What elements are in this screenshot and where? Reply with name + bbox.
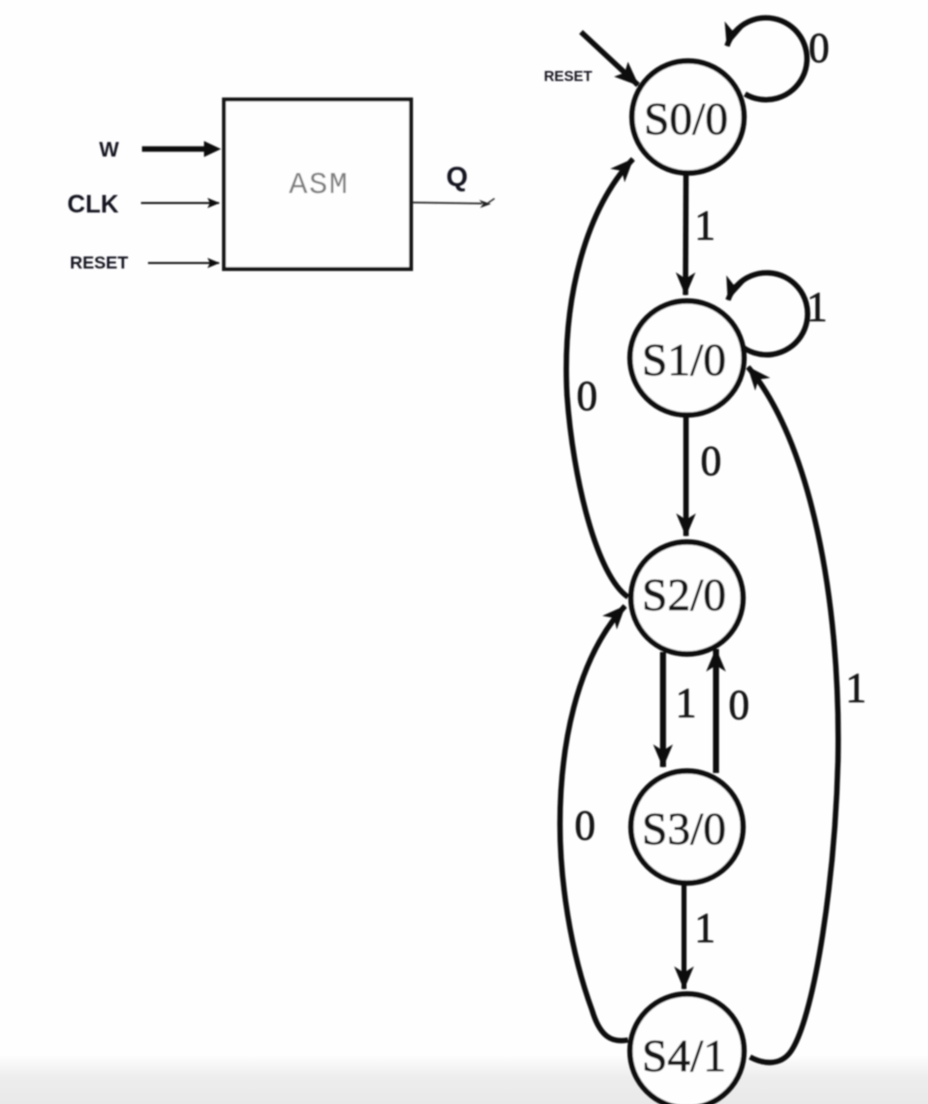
reset arrow into S0 [581,32,638,85]
svg-text:S3/0: S3/0 [642,803,726,854]
svg-text:0: 0 [729,683,750,729]
svg-text:Q: Q [446,161,468,192]
svg-text:W: W [99,139,119,162]
svg-text:0: 0 [575,804,596,850]
svg-text:ASM: ASM [289,168,349,203]
svg-text:1: 1 [695,906,716,952]
svg-text:1: 1 [676,681,697,727]
svg-text:CLK: CLK [67,191,118,219]
svg-text:S1/0: S1/0 [642,334,726,385]
wire CLK [141,202,219,204]
svg-text:1: 1 [846,666,867,712]
wire W [142,146,204,151]
svg-text:S0/0: S0/0 [644,93,728,144]
svg-text:0: 0 [809,26,830,72]
self-loop S1 [728,273,808,355]
transition S3 to S2 [713,649,719,773]
svg-text:RESET: RESET [70,253,129,273]
transition S4 to S1 curve [748,367,838,1062]
state S0 [632,61,744,173]
svg-text:1: 1 [695,204,716,250]
svg-text:0: 0 [701,439,722,485]
svg-text:RESET: RESET [544,69,592,85]
self-loop S0 [727,18,807,100]
ASM block U1 [224,100,411,270]
transition S1 to S2 [683,417,688,536]
state S1 [630,301,744,415]
transition S2 to S3 [660,652,666,767]
wire RESET [148,262,219,264]
wire Q [413,203,482,204]
state S3 [631,771,743,883]
arrowhead W [204,141,221,157]
transition S3 to S4 [682,884,687,989]
svg-text:0: 0 [577,374,598,420]
transition S0 to S1 [683,172,689,295]
svg-text:S2/0: S2/0 [642,569,726,620]
state S4 [630,994,744,1104]
transition S2 to S0 curve [566,159,633,597]
state S2 [631,542,743,654]
svg-text:S4/1: S4/1 [642,1030,726,1081]
transition S4 to S2 curve [560,606,628,1041]
